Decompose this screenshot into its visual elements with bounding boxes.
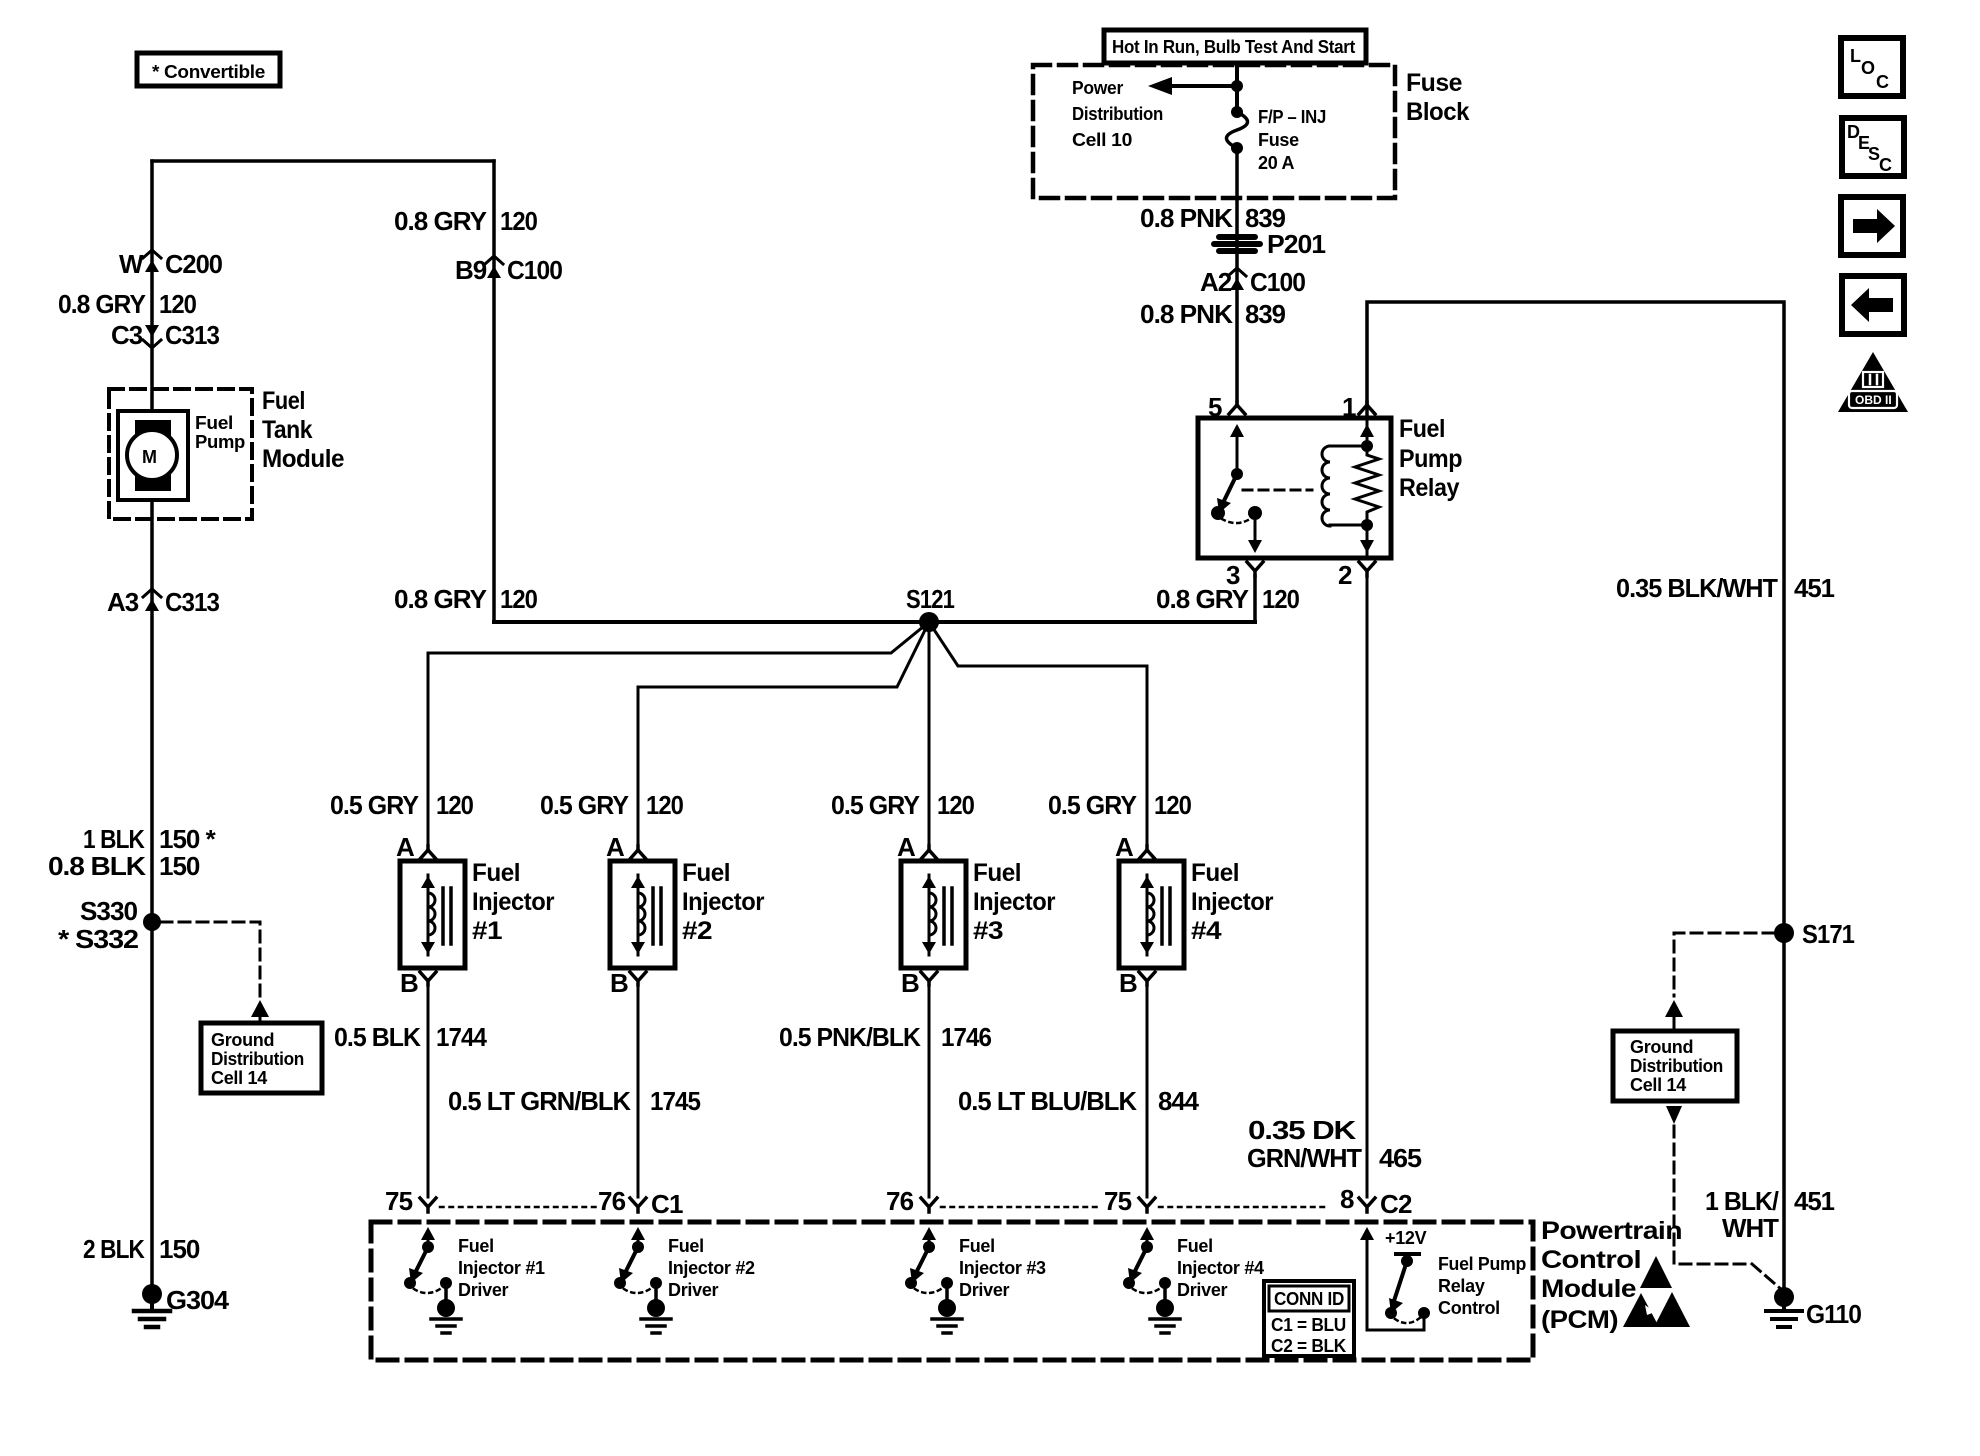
arrow to power distribution	[1148, 77, 1243, 95]
svg-text:Fuel: Fuel	[959, 1236, 995, 1256]
wire label 0.5 GRY 120 (injector 2)	[540, 790, 683, 820]
svg-text:75: 75	[385, 1186, 413, 1216]
svg-text:5: 5	[1208, 392, 1222, 422]
fuel tank module dashed box	[109, 389, 252, 519]
relay resistor	[1355, 418, 1379, 558]
svg-text:0.35 BLK/WHT: 0.35 BLK/WHT	[1616, 573, 1778, 603]
relay coil	[1322, 446, 1367, 526]
svg-text:CONN ID: CONN ID	[1274, 1289, 1344, 1309]
svg-text:C1 = BLU: C1 = BLU	[1271, 1315, 1346, 1335]
relay pin 1	[1342, 392, 1375, 422]
svg-text:Tank: Tank	[262, 416, 313, 444]
svg-text:S330: S330	[80, 896, 138, 926]
svg-text:1746: 1746	[941, 1022, 991, 1052]
svg-text:120: 120	[500, 206, 537, 236]
svg-text:W: W	[119, 249, 144, 279]
svg-text:451: 451	[1794, 573, 1835, 603]
fuel pump relay control driver	[1360, 1227, 1526, 1330]
svg-text:150: 150	[159, 851, 200, 881]
svg-text:0.8 GRY: 0.8 GRY	[394, 584, 487, 614]
svg-text:S121: S121	[906, 584, 954, 614]
fuel injector #1	[396, 832, 555, 998]
wire label 0.5 GRY 120 (injector 1)	[330, 790, 473, 820]
svg-text:839: 839	[1245, 299, 1286, 329]
svg-text:B: B	[610, 968, 628, 998]
svg-text:0.8 PNK: 0.8 PNK	[1140, 203, 1233, 233]
svg-text:C313: C313	[165, 587, 220, 617]
wire: splice bus y=622	[494, 620, 1255, 624]
wire: banner into fuse block	[1235, 63, 1239, 110]
sidebar icon OBD II triangle	[1838, 352, 1908, 412]
dashed reference: cell 14 box down to G110	[1666, 1106, 1782, 1290]
svg-text:1744: 1744	[436, 1022, 487, 1052]
svg-text:Control: Control	[1438, 1298, 1500, 1318]
svg-text:Module: Module	[1541, 1275, 1637, 1303]
svg-text:2 BLK: 2 BLK	[83, 1234, 145, 1264]
fuse block dashed box	[1033, 65, 1395, 198]
svg-text:2: 2	[1338, 560, 1352, 590]
svg-text:76: 76	[598, 1186, 626, 1216]
svg-text:Distribution: Distribution	[1072, 104, 1163, 124]
svg-text:1 BLK: 1 BLK	[83, 824, 145, 854]
wire: mid vertical x=494 (B9 C100 feed)	[492, 161, 496, 622]
connector A2 C100	[1200, 267, 1306, 297]
svg-text:0.8 BLK: 0.8 BLK	[48, 851, 146, 881]
svg-text:Relay: Relay	[1438, 1276, 1485, 1296]
wire label 0.8 BLK 150	[48, 851, 200, 881]
svg-text:76: 76	[886, 1186, 914, 1216]
svg-text:C: C	[1879, 155, 1892, 175]
svg-text:A: A	[1115, 832, 1134, 862]
sidebar icon LOC	[1841, 38, 1903, 96]
svg-text:0.5 BLK: 0.5 BLK	[334, 1022, 421, 1052]
svg-text:O: O	[1861, 58, 1875, 78]
svg-text:120: 120	[436, 790, 473, 820]
relay pin 3	[1226, 560, 1263, 590]
PCM pin 76 (injector 3)	[886, 1186, 937, 1216]
connector A3 C313	[107, 587, 220, 617]
connector B9 C100	[455, 255, 563, 285]
svg-text:Fuel: Fuel	[472, 859, 520, 887]
wire: S121 branch to injector 1	[428, 622, 929, 846]
svg-text:Fuel: Fuel	[668, 1236, 704, 1256]
svg-text:Powertrain: Powertrain	[1541, 1217, 1682, 1245]
wire: bus riser to relay pin 3	[1253, 576, 1257, 622]
svg-text:150: 150	[159, 1234, 200, 1264]
svg-text:0.5 PNK/BLK: 0.5 PNK/BLK	[779, 1022, 921, 1052]
svg-text:Injector #4: Injector #4	[1177, 1258, 1264, 1278]
wire label 0.8 GRY 120 (above bus, left)	[394, 584, 537, 614]
svg-text:Fuel: Fuel	[1177, 1236, 1213, 1256]
sidebar icon arrow left	[1842, 276, 1904, 334]
ESD symbol	[1623, 1256, 1690, 1327]
wire label 0.8 PNK 839 (above P201)	[1140, 203, 1286, 233]
PCM pin 8 C2 (relay control)	[1340, 1184, 1412, 1219]
svg-text:F/P – INJ: F/P – INJ	[1258, 107, 1326, 127]
svg-text:S171: S171	[1802, 919, 1854, 949]
PCM pin 75 (injector 4)	[1104, 1186, 1155, 1216]
svg-text:Fuel: Fuel	[973, 859, 1021, 887]
fuel injector #4	[1115, 832, 1274, 998]
svg-text:WHT: WHT	[1722, 1213, 1779, 1243]
svg-text:#1: #1	[472, 917, 503, 945]
svg-text:Fuel: Fuel	[1191, 859, 1239, 887]
svg-text:Pump: Pump	[1399, 445, 1462, 473]
svg-text:Fuel Pump: Fuel Pump	[1438, 1254, 1526, 1274]
CONN ID legend box	[1264, 1281, 1354, 1356]
wire label 0.5 BLK 1744	[334, 1022, 487, 1052]
svg-text:* Convertible: * Convertible	[152, 62, 265, 82]
svg-text:120: 120	[1154, 790, 1191, 820]
splice node S171	[1774, 919, 1854, 949]
svg-text:C: C	[1876, 72, 1889, 92]
fuel injector #1 driver	[404, 1227, 545, 1333]
svg-text:0.35 DK: 0.35 DK	[1248, 1115, 1356, 1145]
svg-text:#2: #2	[682, 917, 712, 945]
connector W C200	[119, 249, 223, 279]
wire label 0.35 BLK/WHT 451	[1616, 573, 1835, 603]
connector C1 dotted span (pins 75-76)	[440, 1206, 598, 1209]
wire label 0.5 GRY 120 (injector 3)	[831, 790, 974, 820]
PCM pin 75 (injector 1)	[385, 1186, 436, 1216]
svg-text:Pump: Pump	[195, 432, 245, 452]
svg-text:#4: #4	[1191, 917, 1222, 945]
wire label 0.8 GRY 120 (top of B9)	[394, 206, 537, 236]
svg-text:A: A	[396, 832, 415, 862]
svg-text:20 A: 20 A	[1258, 153, 1294, 173]
svg-text:0.5 GRY: 0.5 GRY	[831, 790, 920, 820]
ground distribution cell 14 box (right)	[1613, 1031, 1737, 1101]
svg-text:Fuel: Fuel	[682, 859, 730, 887]
svg-text:Injector: Injector	[472, 888, 555, 916]
svg-text:A3: A3	[107, 587, 139, 617]
ground distribution cell 14 box (left)	[201, 1023, 322, 1093]
svg-text:Fuel: Fuel	[195, 413, 233, 433]
wire: injector 2 B to PCM pin 76 C1	[637, 985, 640, 1197]
splice node S121	[906, 584, 954, 632]
svg-text:B: B	[400, 968, 418, 998]
svg-text:1: 1	[1342, 392, 1356, 422]
svg-text:120: 120	[937, 790, 974, 820]
wire: relay pin 1 up, over and down right rail to G110	[1367, 302, 1784, 1295]
svg-text:OBD II: OBD II	[1855, 393, 1892, 407]
power distribution cell 10 label	[1072, 78, 1163, 150]
svg-text:C1: C1	[651, 1189, 683, 1219]
svg-text:0.5 LT BLU/BLK: 0.5 LT BLU/BLK	[958, 1086, 1137, 1116]
wire: relay pin 2 down to PCM C2	[1366, 576, 1369, 1197]
svg-text:A: A	[606, 832, 625, 862]
powertrain control module (PCM) dashed box	[371, 1222, 1533, 1360]
svg-text:Injector: Injector	[682, 888, 765, 916]
svg-text:(PCM): (PCM)	[1541, 1306, 1618, 1334]
svg-text:Driver: Driver	[1177, 1280, 1228, 1300]
fuse F/P-INJ 20 A	[1227, 106, 1327, 173]
svg-text:G304: G304	[166, 1285, 230, 1315]
svg-text:B: B	[901, 968, 919, 998]
svg-text:Fuse: Fuse	[1406, 69, 1463, 97]
wire: S121 branch to injector 2	[638, 622, 929, 846]
relay pin 2	[1338, 560, 1375, 590]
svg-text:0.5 GRY: 0.5 GRY	[330, 790, 419, 820]
wire label 0.8 GRY 120 (left rail)	[58, 289, 196, 319]
fuel injector #2	[606, 832, 765, 998]
svg-text:C3: C3	[111, 320, 143, 350]
svg-text:120: 120	[646, 790, 683, 820]
svg-text:75: 75	[1104, 1186, 1132, 1216]
svg-text:465: 465	[1379, 1143, 1422, 1173]
svg-text:Control: Control	[1541, 1246, 1641, 1274]
wire label 1 BLK/ WHT 451	[1705, 1186, 1835, 1243]
svg-text:120: 120	[500, 584, 537, 614]
svg-text:Injector: Injector	[973, 888, 1056, 916]
svg-text:Fuse: Fuse	[1258, 130, 1299, 150]
svg-text:Distribution: Distribution	[1630, 1056, 1723, 1076]
wire: injector 3 B to PCM pin 76	[928, 985, 931, 1197]
dashed reference: S171 to ground distribution cell 14 (right)	[1665, 933, 1774, 1028]
svg-text:1 BLK/: 1 BLK/	[1705, 1186, 1779, 1216]
svg-text:Driver: Driver	[668, 1280, 719, 1300]
wire label 0.8 PNK 839 (below A2)	[1140, 299, 1286, 329]
svg-text:A2: A2	[1200, 267, 1232, 297]
relay switch	[1211, 424, 1262, 553]
wire label 0.35 DK GRN/WHT 465	[1247, 1115, 1422, 1173]
dashed reference: S330 to ground distribution cell 14 (left)	[161, 922, 269, 1024]
svg-text:Distribution: Distribution	[211, 1049, 304, 1069]
wire: fuse to relay pin 5	[1235, 148, 1239, 402]
svg-text:Cell 14: Cell 14	[211, 1068, 267, 1088]
fuel injector #3	[897, 832, 1056, 998]
banner: Hot In Run, Bulb Test And Start	[1104, 30, 1366, 63]
svg-text:Injector #2: Injector #2	[668, 1258, 755, 1278]
wire label 0.5 PNK/BLK 1746	[779, 1022, 991, 1052]
wire: left rail top horizontal (C200 branch to B9 branch)	[152, 159, 494, 163]
wire label 2 BLK 150	[83, 1234, 200, 1264]
svg-text:Injector #1: Injector #1	[458, 1258, 545, 1278]
note box: * Convertible	[137, 53, 280, 86]
fuel injector #4 driver	[1123, 1227, 1264, 1333]
svg-text:C2 = BLK: C2 = BLK	[1271, 1336, 1346, 1356]
PCM label	[1541, 1217, 1682, 1334]
svg-text:Driver: Driver	[458, 1280, 509, 1300]
svg-text:P201: P201	[1267, 229, 1326, 259]
svg-text:C100: C100	[1250, 267, 1306, 297]
fuel pump motor M	[118, 411, 245, 500]
svg-text:B: B	[1119, 968, 1137, 998]
wire: S121 branch to injector 3	[928, 622, 931, 846]
wire: S121 branch to injector 4	[929, 622, 1147, 846]
svg-text:Driver: Driver	[959, 1280, 1010, 1300]
sidebar icon arrow right	[1841, 197, 1903, 255]
svg-text:0.5 GRY: 0.5 GRY	[1048, 790, 1137, 820]
svg-text:0.8 GRY: 0.8 GRY	[394, 206, 487, 236]
relay actuation dashed link	[1243, 489, 1312, 492]
svg-text:C313: C313	[165, 320, 220, 350]
fuel pump relay box	[1198, 415, 1462, 558]
svg-text:Block: Block	[1406, 98, 1470, 126]
wire label 1 BLK 150 *	[83, 824, 217, 854]
svg-text:C200: C200	[165, 249, 223, 279]
splice node S330 / S332	[58, 896, 161, 954]
svg-text:Cell 14: Cell 14	[1630, 1075, 1686, 1095]
svg-text:+12V: +12V	[1385, 1228, 1427, 1248]
svg-text:120: 120	[1262, 584, 1299, 614]
svg-text:Ground: Ground	[211, 1030, 274, 1050]
svg-text:0.5 LT GRN/BLK: 0.5 LT GRN/BLK	[448, 1086, 631, 1116]
svg-text:L: L	[1850, 46, 1861, 66]
svg-text:#3: #3	[973, 917, 1003, 945]
svg-text:Injector: Injector	[1191, 888, 1274, 916]
svg-text:120: 120	[159, 289, 196, 319]
svg-text:0.8 PNK: 0.8 PNK	[1140, 299, 1233, 329]
svg-text:Fuel: Fuel	[1399, 415, 1445, 443]
svg-text:GRN/WHT: GRN/WHT	[1247, 1143, 1362, 1173]
svg-text:0.8 GRY: 0.8 GRY	[58, 289, 146, 319]
relay pin 5	[1208, 392, 1245, 422]
svg-text:A: A	[897, 832, 916, 862]
svg-text:M: M	[142, 447, 157, 467]
svg-text:Module: Module	[262, 445, 345, 473]
svg-text:451: 451	[1794, 1186, 1835, 1216]
svg-text:3: 3	[1226, 560, 1240, 590]
connector C2 dotted span (pins 76-75-8)	[941, 1206, 1100, 1209]
wire label 0.5 LT GRN/BLK 1745	[448, 1086, 700, 1116]
wire label 0.5 LT BLU/BLK 844	[958, 1086, 1200, 1116]
svg-text:Relay: Relay	[1399, 474, 1460, 502]
svg-text:Power: Power	[1072, 78, 1123, 98]
svg-text:1745: 1745	[650, 1086, 700, 1116]
wire: injector 1 B to PCM pin 75	[427, 985, 430, 1197]
PCM pin 76 C1 (injector 2)	[598, 1186, 683, 1219]
wire label 0.5 GRY 120 (injector 4)	[1048, 790, 1191, 820]
fuse block label	[1406, 69, 1470, 126]
connector C3 C313	[111, 320, 220, 350]
svg-text:C2: C2	[1380, 1189, 1412, 1219]
svg-text:Fuel: Fuel	[262, 387, 305, 415]
sidebar icon DESC	[1842, 118, 1904, 176]
svg-text:Hot In Run, Bulb Test And Star: Hot In Run, Bulb Test And Start	[1112, 37, 1355, 57]
fuel injector #2 driver	[614, 1227, 755, 1333]
ground G110	[1766, 1287, 1862, 1329]
wire label 0.8 GRY 120 (above bus, right)	[1156, 584, 1299, 614]
svg-text:844: 844	[1158, 1086, 1200, 1116]
svg-text:Ground: Ground	[1630, 1037, 1693, 1057]
fuel tank module label	[262, 387, 345, 473]
svg-text:* S332: * S332	[58, 924, 139, 954]
svg-text:0.5 GRY: 0.5 GRY	[540, 790, 629, 820]
svg-text:B9: B9	[455, 255, 487, 285]
fuel injector #3 driver	[905, 1227, 1046, 1333]
svg-text:150 *: 150 *	[159, 824, 217, 854]
wire: left rail vertical (fuel pump feed/ground)	[150, 161, 154, 1292]
splice P201	[1211, 229, 1326, 259]
ground G304	[134, 1284, 230, 1327]
svg-text:C100: C100	[507, 255, 563, 285]
svg-text:G110: G110	[1806, 1299, 1862, 1329]
svg-text:Cell 10: Cell 10	[1072, 130, 1132, 150]
wire: injector 4 B to PCM pin 75	[1146, 985, 1149, 1197]
svg-text:Injector #3: Injector #3	[959, 1258, 1046, 1278]
svg-text:Fuel: Fuel	[458, 1236, 494, 1256]
svg-text:8: 8	[1340, 1184, 1354, 1214]
